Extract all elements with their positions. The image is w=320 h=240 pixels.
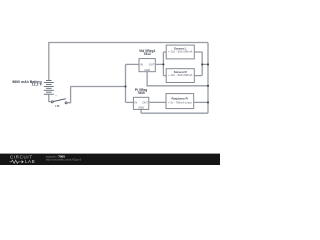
svg-text:GND: GND <box>144 68 150 72</box>
wire screen R left pin <box>163 75 166 77</box>
junction dot left bracket <box>162 63 164 65</box>
wire Pi right pin to rail <box>194 101 208 103</box>
svg-text:I /O: I /O <box>55 105 59 108</box>
wire 7812 OUT to bracket <box>155 63 163 65</box>
junction dot right bracket <box>201 63 203 65</box>
load Raspberry Pi <box>166 94 194 109</box>
svg-text:+ 12v - 500 200mA: + 12v - 500 200mA <box>168 73 193 77</box>
junction dot rail top <box>207 63 209 65</box>
svg-text:7805: 7805 <box>137 91 145 95</box>
load Screen R <box>166 69 194 83</box>
svg-text:12.2 V: 12.2 V <box>32 83 43 87</box>
wire right rail <box>207 43 209 114</box>
load Screen L <box>166 45 194 59</box>
CircuitLab logo <box>10 154 36 164</box>
junction dot rail mid <box>207 85 209 87</box>
wire to 7812 IN <box>126 63 140 65</box>
wire switch to riser corner <box>67 87 70 103</box>
wire 7805 OUT to Pi <box>149 101 166 103</box>
voltage regulator U1 7812 Vid VReg1 <box>139 49 155 72</box>
footer bar <box>0 154 220 165</box>
svg-text:IN: IN <box>135 101 138 105</box>
wire screen L right pin <box>194 51 202 53</box>
wire bracket to rail <box>202 63 208 65</box>
wire battery+ up left side and top rail <box>49 43 208 81</box>
wire branch vertical <box>125 64 127 102</box>
footer credit text <box>46 155 82 162</box>
junction dot branch <box>124 85 126 87</box>
svg-text:GND: GND <box>138 106 144 110</box>
wire 7805 GND pin drop <box>140 109 142 113</box>
wire screens right bracket <box>201 52 203 76</box>
wire branch to 7805 IN <box>126 101 134 103</box>
battery BAT1 9800 mAh <box>44 81 54 95</box>
wire bottom return <box>141 112 208 114</box>
switch SW1 I/O <box>51 99 67 108</box>
svg-text:OUT: OUT <box>142 101 148 105</box>
wire screen L left pin <box>163 51 166 53</box>
svg-text:IN: IN <box>140 63 143 67</box>
voltage regulator U2 7805 Pi VReg <box>133 88 148 110</box>
wire battery- down to switch <box>49 94 51 101</box>
wire screen R right pin <box>194 75 202 77</box>
svg-text:Raspberry Pi: Raspberry Pi <box>172 97 189 101</box>
wire feed to branch <box>71 86 126 88</box>
svg-text:+ 12v - 500 200mA: + 12v - 500 200mA <box>168 50 193 54</box>
svg-text:http://circuitlab.com/c42qpv3: http://circuitlab.com/c42qpv3 <box>46 158 82 162</box>
svg-text:LAB: LAB <box>25 159 35 164</box>
wire screens left bracket <box>162 52 164 76</box>
wire 7812 GND return <box>147 72 208 86</box>
svg-text:OUT: OUT <box>149 63 155 67</box>
svg-text:7812: 7812 <box>144 52 152 56</box>
svg-text:+ 5v - 700mA (max): + 5v - 700mA (max) <box>168 101 192 105</box>
junction dot rail bottom <box>207 101 209 103</box>
